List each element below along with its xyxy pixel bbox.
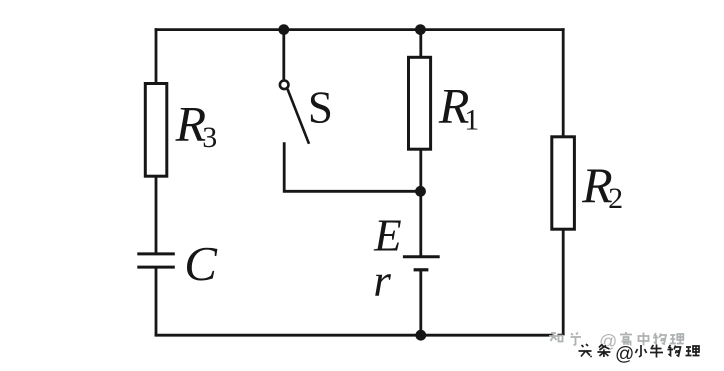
- svg-text:2: 2: [608, 182, 623, 215]
- svg-text:1: 1: [464, 104, 479, 137]
- svg-text:E: E: [373, 211, 402, 261]
- svg-text:S: S: [308, 82, 333, 132]
- svg-text:@: @: [615, 344, 634, 365]
- svg-text:r: r: [373, 256, 391, 306]
- svg-text:C: C: [184, 236, 218, 291]
- svg-text:3: 3: [202, 121, 217, 154]
